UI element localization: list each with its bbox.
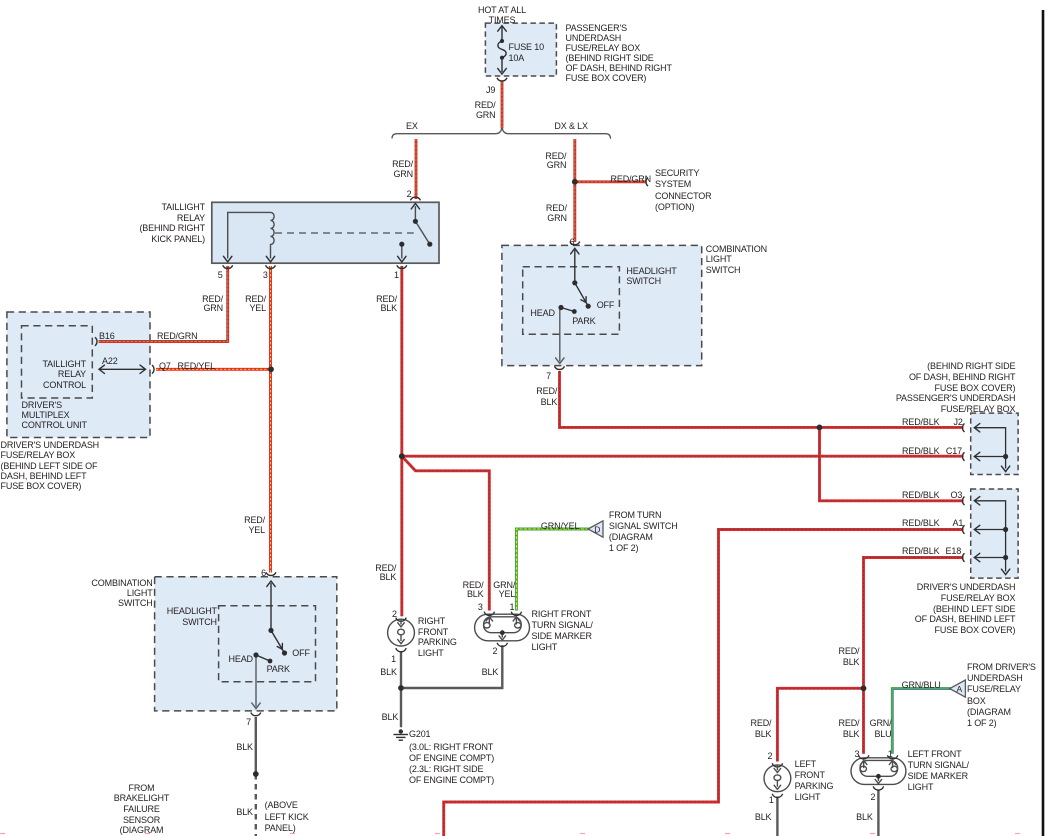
svg-text:A: A (957, 684, 963, 694)
svg-text:D: D (594, 524, 600, 534)
